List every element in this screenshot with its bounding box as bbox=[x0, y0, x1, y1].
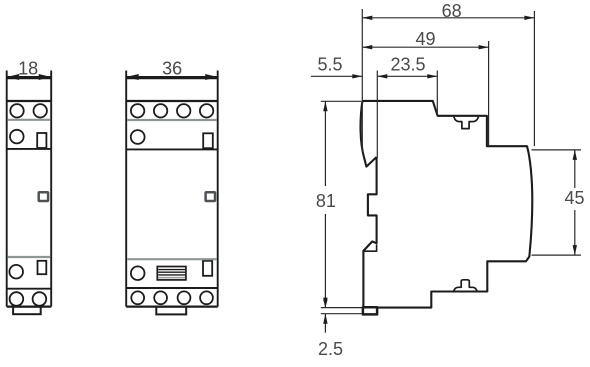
svg-text:45: 45 bbox=[564, 188, 584, 208]
svg-text:23.5: 23.5 bbox=[390, 55, 425, 75]
svg-text:5.5: 5.5 bbox=[317, 55, 342, 75]
svg-text:68: 68 bbox=[442, 1, 462, 21]
svg-text:2.5: 2.5 bbox=[318, 339, 343, 359]
svg-text:36: 36 bbox=[162, 59, 182, 79]
svg-text:18: 18 bbox=[18, 59, 38, 79]
svg-text:49: 49 bbox=[415, 29, 435, 49]
svg-text:81: 81 bbox=[316, 191, 336, 211]
